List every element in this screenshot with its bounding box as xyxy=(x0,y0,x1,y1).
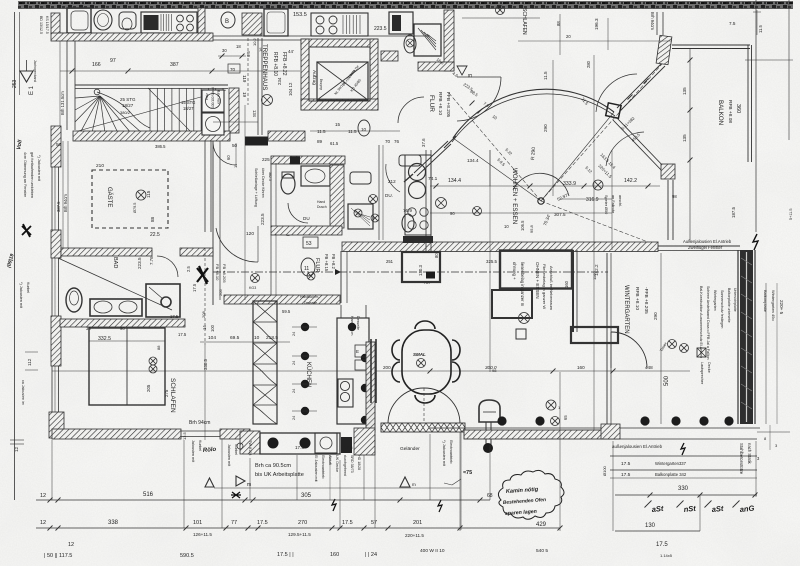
top exterior wall dark speckled band xyxy=(18,2,793,9)
svg-text:290: 290 xyxy=(543,124,548,132)
kitchen island xyxy=(240,431,260,454)
svg-text:gut fortlaufenden umkleben: gut fortlaufenden umkleben xyxy=(30,152,34,198)
svg-text:53: 53 xyxy=(306,241,312,247)
svg-text:11.5: 11.5 xyxy=(348,129,357,134)
svg-text:12: 12 xyxy=(14,446,19,452)
svg-text:KS 15/17.5: KS 15/17.5 xyxy=(45,16,49,34)
svg-text:106.5: 106.5 xyxy=(520,220,525,231)
svg-text:223.5: 223.5 xyxy=(260,213,265,225)
svg-text:ca Jalousien im: ca Jalousien im xyxy=(21,380,25,405)
svg-text:119: 119 xyxy=(242,75,247,83)
west wall hatch corner bottom xyxy=(49,412,64,438)
svg-text:333.9: 333.9 xyxy=(563,181,576,187)
door arc corridor-bath xyxy=(398,97,424,123)
svg-text:234: 234 xyxy=(277,77,282,85)
washbasin WC middle xyxy=(301,166,330,186)
stair outer wall hatch xyxy=(51,13,60,34)
svg-text:≈75: ≈75 xyxy=(463,470,472,476)
svg-text:516: 516 xyxy=(143,492,154,498)
svg-text:Schiene Anstellwand Doca o.FFB: Schiene Anstellwand Doca o.FFB Jal a Fal… xyxy=(706,286,710,360)
window above NE post xyxy=(656,12,658,35)
bath right room door arc xyxy=(386,164,400,192)
svg-text:Anschluß im Nebenraum: Anschluß im Nebenraum xyxy=(549,266,554,311)
svg-text:Balkonplatte 342: Balkonplatte 342 xyxy=(655,472,687,477)
elevator right small hatch wall xyxy=(381,51,398,61)
svg-text:TW 8103: TW 8103 xyxy=(248,440,252,455)
toilet top bath xyxy=(404,35,416,53)
south wall band schlafen xyxy=(52,429,181,439)
svg-text:208: 208 xyxy=(201,311,206,318)
dim line below cluster xyxy=(310,130,400,132)
svg-text:160: 160 xyxy=(330,552,339,558)
svg-text:Bal-Konstruktion Aussonnenschu: Bal-Konstruktion Aussonnenschutz El.Antr… xyxy=(699,286,703,358)
svg-text:Kurbel: Kurbel xyxy=(26,282,30,293)
wall band under WC rooms xyxy=(271,226,342,235)
door arc bad xyxy=(157,256,178,277)
svg-text:m: m xyxy=(412,482,416,487)
svg-text:50: 50 xyxy=(56,142,62,147)
svg-text:HD 18/28: HD 18/28 xyxy=(357,455,361,470)
svg-text:77: 77 xyxy=(231,520,237,526)
wall strip x198 xyxy=(198,8,205,35)
svg-text:36: 36 xyxy=(86,326,91,331)
mullion square right end xyxy=(606,103,621,118)
svg-text:24: 24 xyxy=(292,332,296,336)
svg-text:69.5: 69.5 xyxy=(230,335,240,341)
svg-text:FB +8.10: FB +8.10 xyxy=(215,264,220,281)
outlet near fireplace xyxy=(546,400,556,410)
svg-text:100: 100 xyxy=(210,324,215,332)
angle arc at center xyxy=(513,173,569,196)
wall left of WC xyxy=(270,163,272,228)
svg-text:20: 20 xyxy=(566,34,571,39)
svg-text:500: 500 xyxy=(664,375,670,386)
vertical wall connector x342 xyxy=(340,251,342,303)
ceiling lamp dots kueche xyxy=(301,323,309,331)
WC wall verticals extension xyxy=(270,234,272,295)
kueche counter right unit xyxy=(337,318,369,424)
E1 level marker xyxy=(20,71,33,82)
bathtub top-left xyxy=(67,8,91,33)
svg-text:11.5: 11.5 xyxy=(317,129,326,134)
sideboard heavy rect A xyxy=(402,252,440,282)
svg-text:E: E xyxy=(356,349,359,354)
section dash-dot line corridor xyxy=(213,271,608,273)
svg-text:30: 30 xyxy=(222,48,227,53)
shower DU middle xyxy=(348,204,373,229)
hatched block top-middle xyxy=(242,13,262,35)
svg-text:253: 253 xyxy=(12,79,18,88)
svg-text:212: 212 xyxy=(388,179,396,184)
svg-text:BD 13/12.5: BD 13/12.5 xyxy=(39,16,43,34)
svg-text:Wintergarten 49o: Wintergarten 49o xyxy=(771,290,776,321)
svg-text:Brh 94cm: Brh 94cm xyxy=(63,194,68,212)
svg-text:14: 14 xyxy=(202,325,207,330)
wintergarten east dark band xyxy=(740,250,753,424)
west window 1 xyxy=(51,167,53,230)
svg-text:112: 112 xyxy=(27,358,32,366)
svg-text:205: 205 xyxy=(146,384,151,392)
svg-text:SRD 38/73: SRD 38/73 xyxy=(350,455,354,473)
svg-text:Brh 94cm: Brh 94cm xyxy=(189,420,210,426)
long horizontal line y371 xyxy=(52,370,690,372)
living west wall lines xyxy=(425,150,427,252)
svg-text:330: 330 xyxy=(678,486,689,492)
svg-text:115: 115 xyxy=(146,190,151,198)
svg-text:1.14x5: 1.14x5 xyxy=(660,553,673,558)
outlet right room xyxy=(371,214,379,222)
bed xyxy=(89,328,165,405)
svg-text:98: 98 xyxy=(672,194,677,199)
svg-text:88: 88 xyxy=(156,345,161,350)
svg-text:Wintergarten: Wintergarten xyxy=(713,290,717,311)
svg-text:Untersichtplatte: Untersichtplatte xyxy=(733,288,737,312)
shower top bath xyxy=(414,24,441,56)
slope line bad xyxy=(58,258,172,310)
svg-text:B: B xyxy=(225,19,229,25)
svg-text:Dusch: Dusch xyxy=(317,205,327,209)
svg-text:Handtuch m.: Handtuch m. xyxy=(350,316,354,336)
svg-text:104: 104 xyxy=(208,335,216,341)
svg-text:74.1: 74.1 xyxy=(428,176,438,182)
arc center symbol xyxy=(538,198,544,204)
south wall hatch band wintergarten xyxy=(464,430,617,439)
svg-text:RFB +8.08: RFB +8.08 xyxy=(727,100,733,123)
svg-text:UK Decke: UK Decke xyxy=(335,455,339,472)
left page border line xyxy=(14,12,16,500)
stair-gaeste wall verticals xyxy=(204,141,206,232)
small window X in wall xyxy=(290,157,300,165)
bath east wall lines xyxy=(378,145,380,240)
svg-text:17.5: 17.5 xyxy=(344,445,353,450)
svg-text:13.5: 13.5 xyxy=(182,431,187,440)
svg-text:*) Jalousien mit: *) Jalousien mit xyxy=(37,155,41,182)
svg-text:10: 10 xyxy=(254,335,260,341)
door arc flur top xyxy=(457,77,501,121)
outlet KG3 corridor xyxy=(251,274,260,283)
svg-text:24: 24 xyxy=(292,361,296,365)
svg-text:Fliesenbelag in ganzer W: Fliesenbelag in ganzer W xyxy=(542,264,547,309)
svg-text:5+11.5: 5+11.5 xyxy=(789,209,793,220)
svg-text:Jalousien mit: Jalousien mit xyxy=(191,440,195,463)
svg-text:RFB +8.10: RFB +8.10 xyxy=(437,92,443,115)
svg-text:11: 11 xyxy=(304,266,309,272)
dashed vertical line x205 xyxy=(204,248,206,345)
svg-text:Handtuch m.: Handtuch m. xyxy=(300,295,319,299)
svg-text:Schließanlage + Lüftung: Schließanlage + Lüftung xyxy=(254,168,258,207)
shower bad xyxy=(146,284,180,317)
svg-text:Jachogenband: Jachogenband xyxy=(33,60,37,82)
svg-text:400 W II 10: 400 W II 10 xyxy=(420,548,445,554)
svg-text:WOHNEN + ESSEN: WOHNEN + ESSEN xyxy=(511,168,518,224)
svg-text:90: 90 xyxy=(450,211,455,216)
svg-text:2.5: 2.5 xyxy=(186,266,191,272)
svg-text:98: 98 xyxy=(492,368,497,373)
bottom extra verticals kitchen xyxy=(296,455,298,500)
svg-text:| 50 || 117.5: | 50 || 117.5 xyxy=(44,553,72,559)
leader line to fireplace xyxy=(452,479,461,485)
south window schlafen xyxy=(181,430,220,432)
wall band gaeste-bad xyxy=(61,248,152,256)
glass arc wall xyxy=(453,89,614,138)
svg-text:E: E xyxy=(466,74,472,78)
svg-text:70: 70 xyxy=(385,139,391,144)
svg-text:196.3: 196.3 xyxy=(594,18,599,30)
wall hatch L corner top bath xyxy=(444,10,454,71)
svg-text:*) Jalousien mit: *) Jalousien mit xyxy=(442,440,446,467)
svg-text:325.5: 325.5 xyxy=(486,259,498,264)
balkon boundary lines xyxy=(672,44,750,46)
right edge ticks xyxy=(745,59,793,61)
kueche dot dim ticks xyxy=(292,326,317,328)
svg-text:338: 338 xyxy=(108,520,119,526)
outlet gaeste xyxy=(136,190,146,200)
wall band over WC xyxy=(271,156,345,164)
svg-text:RFB +8.10: RFB +8.10 xyxy=(272,52,278,76)
svg-text:Desseite: Desseite xyxy=(304,301,317,305)
svg-text:89: 89 xyxy=(317,139,323,144)
counter bottom dark xyxy=(403,236,433,243)
lightning bottom kitchen xyxy=(332,499,336,511)
stair dark block 2 xyxy=(245,137,268,146)
svg-text:24: 24 xyxy=(292,389,296,393)
west wall hatch 3 xyxy=(51,316,61,366)
svg-text:540 5: 540 5 xyxy=(536,548,548,554)
stair risers vertical right flight xyxy=(149,88,151,133)
svg-text:160: 160 xyxy=(564,280,569,288)
svg-text:95.8: 95.8 xyxy=(529,224,534,233)
svg-text:380/2: 380/2 xyxy=(120,110,131,115)
svg-text:über Decke führen: über Decke führen xyxy=(261,168,265,198)
svg-text:Brh 94cm: Brh 94cm xyxy=(650,12,655,30)
corridor marker He7 xyxy=(426,272,435,279)
svg-text:18/27: 18/27 xyxy=(183,106,194,111)
svg-text:FLUR: FLUR xyxy=(428,95,435,112)
section line y488 with triangles xyxy=(214,487,460,489)
svg-text:251: 251 xyxy=(386,259,394,264)
svg-text:448: 448 xyxy=(645,365,653,370)
west wall hatch 2 xyxy=(51,230,61,258)
measure point marker triangle m xyxy=(457,66,467,75)
wintergarten door arc xyxy=(611,332,647,368)
svg-text:Desseite: Desseite xyxy=(356,316,360,330)
svg-text:17.5: 17.5 xyxy=(621,461,631,467)
svg-text:126+11.5: 126+11.5 xyxy=(193,532,212,537)
svg-text:24: 24 xyxy=(292,416,296,420)
svg-text:SMAL: SMAL xyxy=(413,352,426,357)
svg-text:290: 290 xyxy=(653,312,658,320)
svg-text:135: 135 xyxy=(682,134,687,142)
wall band bad-schlafen xyxy=(60,319,185,327)
svg-text:104 12: 104 12 xyxy=(288,82,293,96)
dashed line stairhall xyxy=(247,38,249,105)
kitchen-dining divider wall xyxy=(370,339,372,403)
washbasin oval top-left xyxy=(94,10,112,30)
stair walking line xyxy=(97,92,150,128)
svg-text:FLUR: FLUR xyxy=(314,258,320,272)
svg-text:6.5: 6.5 xyxy=(246,51,251,57)
schlafen dim row 104 69.5 10 218.5 xyxy=(200,341,290,343)
svg-text:DU.: DU. xyxy=(385,193,393,198)
kamin leader vertical xyxy=(363,455,365,500)
counter edge line top-middle xyxy=(212,35,430,37)
svg-text:7.5: 7.5 xyxy=(729,21,736,26)
wall band kueche top xyxy=(224,295,340,304)
svg-text:Jalousien mit: Jalousien mit xyxy=(227,444,231,467)
svg-text:Zweiflügel Fenster: Zweiflügel Fenster xyxy=(688,245,723,250)
svg-text:10.2: 10.2 xyxy=(252,37,257,46)
svg-text:Decke: Decke xyxy=(707,362,711,373)
svg-text:80: 80 xyxy=(434,253,439,258)
svg-text:60: 60 xyxy=(226,155,231,160)
door arc stairhall to corridor xyxy=(213,143,236,165)
balkon dim line xyxy=(689,48,691,242)
svg-text:Lautsprecher: Lautsprecher xyxy=(700,362,704,385)
arc left end wall join xyxy=(444,136,456,148)
svg-text:Speier Ø50: Speier Ø50 xyxy=(604,195,608,214)
svg-text:37.6: 37.6 xyxy=(421,138,426,147)
svg-text:130.3: 130.3 xyxy=(418,264,423,276)
stair winder fan left xyxy=(75,96,100,98)
svg-text:134: 134 xyxy=(252,110,257,118)
svg-text:17.5: 17.5 xyxy=(257,520,268,526)
elevator shaft hatched frame xyxy=(301,39,378,47)
sideboard heavy rect C xyxy=(492,290,532,318)
svg-text:90: 90 xyxy=(120,326,125,331)
pillar hatch SE living xyxy=(601,424,620,439)
svg-text:130: 130 xyxy=(645,523,656,529)
diag window lower-left of arc xyxy=(414,141,448,173)
dim row A 516/305 xyxy=(36,499,490,501)
svg-text:BAD: BAD xyxy=(112,257,118,268)
hatched wall diag WC-right xyxy=(330,165,344,228)
svg-text:Geländer: Geländer xyxy=(400,446,420,452)
svg-text:FB +8.2: FB +8.2 xyxy=(331,254,336,269)
svg-text:*) Jalousien mit: *) Jalousien mit xyxy=(19,282,23,309)
svg-text:129.5+11.5: 129.5+11.5 xyxy=(288,532,311,537)
svg-text:Kurbel: Kurbel xyxy=(198,440,202,451)
stove kueche xyxy=(338,379,353,407)
outlet symbol stairwell xyxy=(262,95,273,106)
svg-text:Aufzug: Aufzug xyxy=(319,79,323,90)
svg-text:FFB +8.22: FFB +8.22 xyxy=(281,52,287,76)
svg-text:WINTERGARTEN: WINTERGARTEN xyxy=(623,285,629,334)
small box xyxy=(516,329,526,339)
dim row B 338/101/77... xyxy=(36,527,560,529)
door arc WC xyxy=(288,203,308,223)
svg-text:nach Statik: nach Statik xyxy=(747,443,752,465)
bathtub 2 top-middle xyxy=(264,9,288,36)
svg-text:120: 120 xyxy=(246,231,254,237)
svg-text:BALKON: BALKON xyxy=(717,100,724,125)
svg-text:Ø79.5: Ø79.5 xyxy=(133,203,137,213)
svg-text:aSt: aSt xyxy=(651,504,664,514)
svg-text:360: 360 xyxy=(735,104,741,113)
svg-text:25 STG: 25 STG xyxy=(120,97,136,102)
svg-text:Wintergarten337: Wintergarten337 xyxy=(655,461,687,466)
svg-text:m: m xyxy=(247,482,251,488)
svg-text:210: 210 xyxy=(96,163,104,169)
svg-text:50: 50 xyxy=(232,143,238,148)
svg-text:100/100 Wand: 100/100 Wand xyxy=(211,87,215,108)
svg-text:220+11.5: 220+11.5 xyxy=(405,533,424,538)
west window 2 lines xyxy=(51,258,53,316)
svg-text:Electroantrieb: Electroantrieb xyxy=(321,455,325,478)
outlets living xyxy=(436,198,447,209)
svg-text:101: 101 xyxy=(193,520,202,526)
svg-text:70: 70 xyxy=(230,67,236,72)
diagonal window upper NE xyxy=(617,63,662,108)
svg-text:134.4: 134.4 xyxy=(467,158,479,163)
door arc bay upper xyxy=(596,74,637,112)
svg-text:nSt: nSt xyxy=(683,504,696,514)
svg-text:12: 12 xyxy=(40,520,46,526)
svg-text:205: 205 xyxy=(218,289,223,296)
svg-text:153.5: 153.5 xyxy=(293,12,307,18)
dim verticals living xyxy=(489,150,491,372)
west wall hatch 1 xyxy=(51,126,61,167)
kitchen sink+stove unit top-left xyxy=(141,12,197,33)
svg-text:Balkonplatte unterseite: Balkonplatte unterseite xyxy=(727,288,731,323)
corridor door arc big xyxy=(216,228,258,262)
svg-text:Brh 131.5cm: Brh 131.5cm xyxy=(60,91,65,115)
WC bowl circle-B top-middle xyxy=(221,12,235,28)
svg-text:bis UK Arbeitsplatte: bis UK Arbeitsplatte xyxy=(255,472,304,478)
svg-text:10: 10 xyxy=(504,224,509,229)
svg-text:332.5: 332.5 xyxy=(98,336,111,342)
svg-text:durchgehend: durchgehend xyxy=(343,455,347,476)
svg-text:7.76: 7.76 xyxy=(149,256,154,265)
svg-text:Heiz: Heiz xyxy=(205,93,209,100)
stair break diagonals X xyxy=(78,90,226,131)
svg-text:Rölo: Rölo xyxy=(203,447,217,454)
svg-text:68: 68 xyxy=(487,493,493,499)
svg-text:330.5: 330.5 xyxy=(203,358,208,370)
NE post 2 hatch xyxy=(661,164,675,179)
svg-text:160: 160 xyxy=(577,365,585,370)
french door arcs dining xyxy=(388,388,424,424)
svg-text:KRK RFB: KRK RFB xyxy=(217,90,221,104)
corridor line y122 xyxy=(213,121,258,123)
counter line top-left xyxy=(52,32,212,34)
svg-text:FB +8.15: FB +8.15 xyxy=(324,254,329,272)
railing band geleander xyxy=(381,423,465,432)
sideboard heavy rect B xyxy=(500,251,572,289)
svg-text:anG: anG xyxy=(739,503,755,513)
svg-text:17.5: 17.5 xyxy=(342,520,353,526)
svg-text:17.5: 17.5 xyxy=(170,314,179,319)
svg-text:135: 135 xyxy=(682,87,687,95)
line y41 upper flat boundary xyxy=(518,40,672,42)
svg-text:11.5: 11.5 xyxy=(543,71,548,80)
svg-text:387: 387 xyxy=(170,62,179,68)
svg-text:E 1: E 1 xyxy=(29,85,35,95)
svg-text:Brh ca 90.5cm: Brh ca 90.5cm xyxy=(255,463,291,469)
svg-text:ohnung +: ohnung + xyxy=(512,262,517,280)
stairwell right wall xyxy=(257,38,259,135)
toilet bad xyxy=(66,288,82,312)
stair right hatch strip xyxy=(229,88,239,133)
radius lines xyxy=(453,138,541,201)
svg-text:17.5: 17.5 xyxy=(178,332,187,337)
svg-text:| | 24: | | 24 xyxy=(365,552,377,558)
svg-text:Balkonplatte: Balkonplatte xyxy=(763,290,768,313)
label FLUR lower with oval 11 xyxy=(301,258,315,276)
kitchenette counter xyxy=(405,155,431,235)
svg-text:Sonnenschutz festlegen: Sonnenschutz festlegen xyxy=(720,290,724,328)
diagonal window lower NE xyxy=(616,117,667,170)
svg-text:142.2: 142.2 xyxy=(624,178,637,184)
